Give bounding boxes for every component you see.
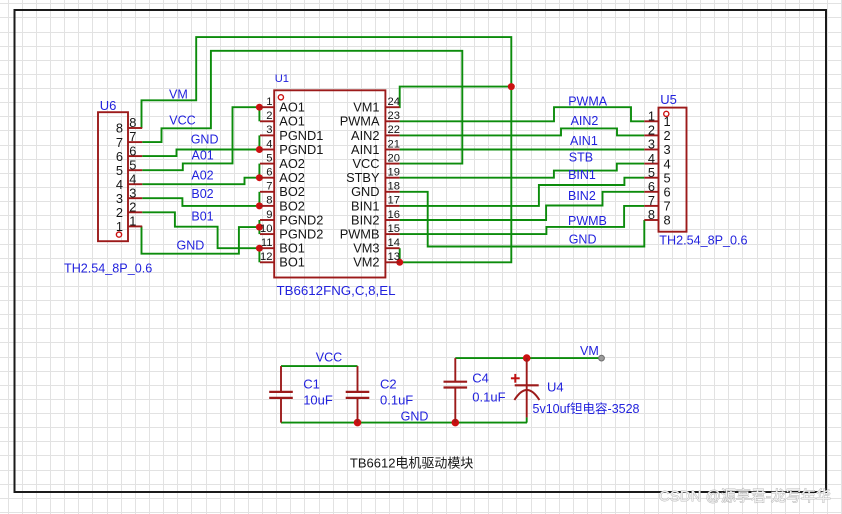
svg-text:19: 19 <box>388 167 400 179</box>
svg-text:STB: STB <box>569 151 593 165</box>
U1 pin 11 (BO1) <box>260 237 305 256</box>
net label PWMB <box>568 214 607 228</box>
U1 pin 2 (AO1) <box>260 110 305 129</box>
U1 pin 18 (GND) <box>351 181 400 200</box>
wire net AIN2: U1 pin22 to U5.2 <box>400 128 645 135</box>
svg-text:12: 12 <box>260 251 272 263</box>
svg-text:3: 3 <box>116 191 123 206</box>
svg-text:VM: VM <box>580 344 599 358</box>
svg-text:14: 14 <box>388 237 400 249</box>
U1 pin 23 (PWMA) <box>340 110 400 129</box>
svg-text:AO1: AO1 <box>279 100 305 115</box>
value TH2.54_8P_0.6 (U5) <box>659 234 747 248</box>
capacitor C4 <box>444 358 468 423</box>
svg-text:TB6612电机驱动模块: TB6612电机驱动模块 <box>350 455 474 470</box>
svg-text:5: 5 <box>664 170 671 185</box>
U1 pin 17 (BIN1) <box>351 195 400 214</box>
svg-text:6: 6 <box>648 179 655 194</box>
svg-text:VCC: VCC <box>316 350 342 364</box>
wire net VM: U6.8 up to top rail <box>142 37 512 128</box>
wire net VM: U1 pin14 VM3 branch <box>399 248 401 262</box>
svg-text:BIN2: BIN2 <box>568 189 596 203</box>
wire net A01: U6.5 to U1 pins 1/2 AO1 <box>142 107 259 170</box>
svg-text:B02: B02 <box>191 187 213 201</box>
watermark CSDN @源享君-龙写年华 <box>659 488 831 505</box>
junction net VM at top rail <box>508 83 515 90</box>
U5 pin 2 <box>644 123 670 144</box>
value TB6612FNG,C,8,EL <box>277 283 396 298</box>
wire net GND: U6.1 to U1 pins 9/10 PGND2 <box>142 220 260 254</box>
svg-text:CSDN @源享君-龙写年华: CSDN @源享君-龙写年华 <box>659 488 831 505</box>
net label VM (bottom) <box>580 344 599 358</box>
U1 pin 1 indicator circle <box>278 95 283 100</box>
junction net VM at U1 pin13 <box>396 259 403 266</box>
svg-text:A01: A01 <box>192 149 214 163</box>
svg-text:2: 2 <box>648 123 655 138</box>
svg-text:GND: GND <box>177 239 205 253</box>
svg-text:GND: GND <box>569 233 597 247</box>
svg-text:PGND1: PGND1 <box>279 128 323 143</box>
U6 pin 1 indicator circle <box>116 232 121 237</box>
svg-text:VCC: VCC <box>352 156 379 171</box>
svg-text:4: 4 <box>648 151 655 166</box>
net label VCC <box>169 113 195 127</box>
svg-text:15: 15 <box>388 223 400 235</box>
svg-text:AIN1: AIN1 <box>351 142 379 157</box>
svg-text:21: 21 <box>388 138 400 150</box>
wire net GND: U6.6 to U1 pins 3/4 PGND1 <box>142 135 259 156</box>
net label GND#2 <box>177 239 205 253</box>
svg-text:4: 4 <box>129 171 136 186</box>
svg-text:BO2: BO2 <box>279 184 305 199</box>
svg-text:3: 3 <box>664 142 671 157</box>
svg-text:C4: C4 <box>472 371 489 386</box>
svg-text:U6: U6 <box>100 98 117 113</box>
svg-text:2: 2 <box>116 205 123 220</box>
svg-text:2: 2 <box>664 128 671 143</box>
wire net PWMB: U1 pin15 to U5.7 <box>400 206 645 234</box>
svg-text:8: 8 <box>129 115 136 130</box>
svg-text:8: 8 <box>664 213 671 228</box>
svg-text:2: 2 <box>129 200 136 215</box>
svg-text:5: 5 <box>129 157 136 172</box>
U1 pin 14 (VM3) <box>353 237 400 256</box>
junction net GND at U1 pin4 <box>256 146 263 153</box>
junction net GND at U1 pins 9/10 midpoint <box>256 224 263 231</box>
wire net GND: U1 pin18 to U5.8 <box>400 192 645 247</box>
net label GND <box>191 133 219 147</box>
svg-text:BO2: BO2 <box>279 198 305 213</box>
value 5v10uf钽电容-3528 (U4) <box>533 401 640 416</box>
svg-text:PWMB: PWMB <box>340 227 380 242</box>
U5 pin 1 <box>644 109 670 130</box>
port VM (gray endpoint) <box>599 355 605 361</box>
svg-text:18: 18 <box>388 181 400 193</box>
U1 pin 9 (PGND2) <box>260 209 323 228</box>
designator C1 <box>303 377 320 392</box>
U1 pin 16 (BIN2) <box>351 209 400 228</box>
U5 pin 3 <box>644 137 670 158</box>
U6 pin 1 <box>116 214 142 235</box>
svg-text:6: 6 <box>129 143 136 158</box>
svg-text:U4: U4 <box>547 380 564 395</box>
text schematic title TB6612电机驱动模块 <box>350 455 474 470</box>
U1 pin 12 (BO1) <box>260 251 305 270</box>
junction net B02 at U1 pin8 <box>256 202 263 209</box>
designator U5 <box>660 92 677 107</box>
wire net VCC rail (bottom) <box>281 365 358 367</box>
svg-text:24: 24 <box>388 96 400 108</box>
svg-text:TB6612FNG,C,8,EL: TB6612FNG,C,8,EL <box>277 283 396 298</box>
svg-text:B01: B01 <box>191 210 213 224</box>
designator C4 <box>472 371 489 386</box>
svg-text:TH2.54_8P_0.6: TH2.54_8P_0.6 <box>659 234 747 248</box>
U1 pin 3 (PGND1) <box>260 124 323 143</box>
connector U6 body <box>98 112 128 241</box>
U6 pin 7 <box>116 129 142 150</box>
svg-text:6: 6 <box>266 167 272 179</box>
net label AIN2 <box>571 114 599 128</box>
U5 pin 8 <box>644 207 670 228</box>
svg-text:7: 7 <box>266 181 272 193</box>
U5 pin 4 <box>644 151 670 172</box>
svg-text:16: 16 <box>388 209 400 221</box>
net label GND#3 <box>569 233 597 247</box>
U4 polarity plus sign <box>511 374 520 383</box>
net label VCC (bottom) <box>316 350 342 364</box>
U1 pin 21 (AIN1) <box>351 138 400 157</box>
U5 pin 1 indicator circle <box>664 111 669 116</box>
svg-text:7: 7 <box>648 193 655 208</box>
svg-text:PWMB: PWMB <box>568 214 607 228</box>
value 0.1uF (C2) <box>380 392 413 407</box>
svg-text:7: 7 <box>664 199 671 214</box>
svg-text:BIN2: BIN2 <box>351 212 379 227</box>
net label VM <box>169 88 188 102</box>
wire net PWMA: U1 pin23 to U5.1 <box>400 107 645 121</box>
svg-text:1: 1 <box>648 109 655 124</box>
svg-text:5: 5 <box>648 165 655 180</box>
connector U5 body <box>659 108 687 232</box>
svg-text:10uF: 10uF <box>303 392 333 407</box>
svg-text:2: 2 <box>266 110 272 122</box>
svg-text:AIN2: AIN2 <box>351 128 379 143</box>
svg-text:9: 9 <box>266 209 272 221</box>
net label STB <box>569 151 593 165</box>
wire net BIN1: U1 pin17 to U5.5 <box>400 178 645 206</box>
svg-text:5: 5 <box>266 152 272 164</box>
wire net AIN1: U1 pin21 to U5.3 <box>400 149 645 151</box>
svg-text:PGND2: PGND2 <box>279 212 323 227</box>
svg-text:0.1uF: 0.1uF <box>472 390 505 405</box>
svg-text:1: 1 <box>664 114 671 129</box>
svg-text:STBY: STBY <box>346 170 380 185</box>
U5 pin 5 <box>644 165 670 186</box>
junction net A01 at U1 pin1 <box>256 104 263 111</box>
wire net VCC: U1 pin20 to U6.7 <box>142 51 462 164</box>
svg-text:PWMA: PWMA <box>340 114 380 129</box>
svg-text:C1: C1 <box>303 377 320 392</box>
junction net A02 at U1 pin6 <box>256 174 263 181</box>
svg-text:8: 8 <box>648 207 655 222</box>
svg-text:VM: VM <box>169 88 188 102</box>
svg-text:GND: GND <box>401 410 429 424</box>
svg-text:1: 1 <box>129 214 136 229</box>
U1 pin 24 (VM1) <box>353 96 400 115</box>
U1 pin 1 (AO1) <box>260 96 305 115</box>
svg-text:22: 22 <box>388 124 400 136</box>
designator U4 <box>547 380 564 395</box>
junction VM rail at U4 <box>523 354 531 362</box>
net label PWMA <box>568 94 608 108</box>
net label A02 <box>191 168 213 182</box>
junction GND rail at C2 <box>354 419 362 427</box>
svg-text:AIN1: AIN1 <box>570 134 598 148</box>
U5 pin 7 <box>644 193 670 214</box>
wire net VM: U1 pin24 VM1 branch <box>400 87 512 108</box>
svg-text:BO1: BO1 <box>279 255 305 270</box>
svg-text:VM1: VM1 <box>353 100 379 115</box>
svg-text:3: 3 <box>266 124 272 136</box>
net label AIN1 <box>570 134 598 148</box>
U6 pin 6 <box>116 143 142 164</box>
svg-text:VCC: VCC <box>169 113 195 127</box>
designator U1 <box>275 73 289 85</box>
U1 pin 15 (PWMB) <box>340 223 400 242</box>
svg-text:5: 5 <box>116 163 123 178</box>
junction net B01 at U1 pin11 <box>256 245 263 252</box>
value 10uF (C1) <box>303 392 333 407</box>
svg-text:13: 13 <box>388 251 400 263</box>
U6 pin 5 <box>116 157 142 178</box>
IC U1 body <box>274 90 385 277</box>
svg-text:GND: GND <box>191 133 219 147</box>
svg-text:8: 8 <box>266 195 272 207</box>
wire net STB: U1 pin19 to U5.4 <box>400 164 645 178</box>
svg-text:PGND2: PGND2 <box>279 227 323 242</box>
svg-text:10: 10 <box>260 223 272 235</box>
svg-text:VM2: VM2 <box>353 255 379 270</box>
svg-text:A02: A02 <box>191 168 213 182</box>
svg-text:TH2.54_8P_0.6: TH2.54_8P_0.6 <box>64 262 152 276</box>
svg-text:5v10uf钽电容-3528: 5v10uf钽电容-3528 <box>533 401 640 416</box>
U1 pin 19 (STBY) <box>346 167 400 186</box>
U1 pin 7 (BO2) <box>260 181 305 200</box>
svg-text:6: 6 <box>664 185 671 200</box>
svg-text:8: 8 <box>116 121 123 136</box>
svg-text:PGND1: PGND1 <box>279 142 323 157</box>
svg-text:PWMA: PWMA <box>568 94 608 108</box>
wire net B02: U6.3 to U1 pins 7/8 BO2 <box>142 192 259 206</box>
net label GND (bottom) <box>401 410 429 424</box>
net label BIN2 <box>568 189 596 203</box>
svg-text:17: 17 <box>388 195 400 207</box>
svg-text:VM3: VM3 <box>353 241 379 256</box>
wire net BIN2: U1 pin16 to U5.6 <box>400 192 645 220</box>
svg-text:BO1: BO1 <box>279 241 305 256</box>
svg-text:1: 1 <box>266 96 272 108</box>
wire net B01: U6.2 to U1 pins 11/12 BO1 <box>142 212 259 262</box>
capacitor C2 <box>346 366 370 423</box>
U1 pin 6 (AO2) <box>260 167 305 186</box>
svg-text:GND: GND <box>351 184 379 199</box>
polarized capacitor U4 <box>514 358 539 423</box>
net label B02 <box>191 187 213 201</box>
svg-text:3: 3 <box>648 137 655 152</box>
wire net VM rail (bottom) <box>455 357 601 359</box>
U6 pin 3 <box>116 185 142 206</box>
net label A01 <box>192 149 214 163</box>
designator U6 <box>100 98 117 113</box>
U1 pin 20 (VCC) <box>352 152 399 171</box>
U1 pin 8 (BO2) <box>260 195 305 214</box>
U1 pin 10 (PGND2) <box>260 223 323 242</box>
svg-text:C2: C2 <box>380 377 397 392</box>
U1 pin 4 (PGND1) <box>260 138 323 157</box>
wire net A02: U6.4 to U1 pins 5/6 AO2 <box>142 164 259 185</box>
U6 pin 8 <box>116 115 142 136</box>
svg-text:AO1: AO1 <box>279 114 305 129</box>
svg-text:AIN2: AIN2 <box>571 114 599 128</box>
value 0.1uF (C4) <box>472 390 505 405</box>
svg-text:3: 3 <box>129 185 136 200</box>
U1 pin 5 (AO2) <box>260 152 305 171</box>
net label B01 <box>191 210 213 224</box>
junction GND rail at C4 <box>452 419 460 427</box>
capacitor C1 <box>269 366 293 423</box>
svg-text:23: 23 <box>388 110 400 122</box>
svg-text:0.1uF: 0.1uF <box>380 392 413 407</box>
svg-text:4: 4 <box>266 138 272 150</box>
svg-text:7: 7 <box>116 135 123 150</box>
wire net GND rail (bottom) <box>281 422 527 424</box>
U5 pin 6 <box>644 179 670 200</box>
svg-text:20: 20 <box>388 152 400 164</box>
net label BIN1 <box>568 168 596 182</box>
designator C2 <box>380 377 397 392</box>
svg-text:4: 4 <box>664 156 671 171</box>
U1 pin 22 (AIN2) <box>351 124 400 143</box>
svg-text:7: 7 <box>129 129 136 144</box>
svg-text:AO2: AO2 <box>279 156 305 171</box>
value TH2.54_8P_0.6 (U6) <box>64 262 152 276</box>
svg-text:6: 6 <box>116 149 123 164</box>
svg-text:BIN1: BIN1 <box>351 198 379 213</box>
svg-text:U1: U1 <box>275 73 289 85</box>
U6 pin 2 <box>116 200 142 221</box>
U1 pin 13 (VM2) <box>353 251 400 270</box>
svg-text:AO2: AO2 <box>279 170 305 185</box>
svg-text:4: 4 <box>116 177 123 192</box>
svg-text:11: 11 <box>261 237 273 249</box>
svg-text:U5: U5 <box>660 92 677 107</box>
svg-text:1: 1 <box>116 219 123 234</box>
wire net VM: vertical down to U1 pin13 VM2 <box>400 87 512 263</box>
svg-text:BIN1: BIN1 <box>568 168 596 182</box>
U6 pin 4 <box>116 171 142 192</box>
